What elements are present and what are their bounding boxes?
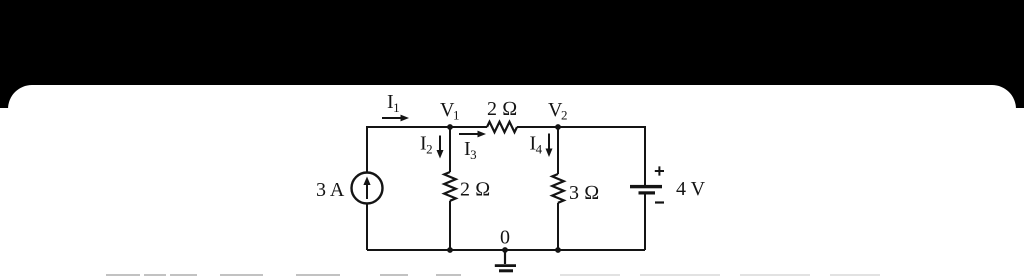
battery minus sign bbox=[655, 201, 664, 203]
label I1 bbox=[387, 91, 400, 115]
battery V1 4V short negative plate bbox=[639, 191, 656, 194]
wire: bottom wire from left corner through nodes to right corner bbox=[367, 249, 645, 251]
label 2 ohm top resistor value bbox=[487, 98, 517, 120]
wire: V1 branch upper (node V1 down to 2-ohm resistor) bbox=[449, 127, 451, 172]
resistor R3 2-ohm horizontal between V1 and V2 bbox=[487, 122, 517, 132]
node 0 junction dot at ground bbox=[502, 247, 508, 253]
svg-text:2 Ω: 2 Ω bbox=[460, 179, 490, 201]
white content card with rounded top corners bbox=[8, 85, 1016, 276]
svg-text:4 V: 4 V bbox=[676, 178, 706, 200]
svg-text:I4: I4 bbox=[530, 133, 543, 157]
wire: left branch lower (current source to bottom wire) bbox=[366, 204, 368, 251]
arrow for current I4 down branch V2 bbox=[546, 134, 553, 158]
svg-text:I1: I1 bbox=[387, 91, 400, 115]
junction dot bottom of V1 branch bbox=[447, 247, 453, 253]
wire: right branch upper (top wire down to battery + plate) bbox=[644, 127, 646, 185]
current source internal up arrow bbox=[363, 177, 370, 200]
svg-text:I2: I2 bbox=[420, 133, 433, 157]
arrow for current I1 on top wire bbox=[382, 115, 409, 122]
battery plus sign bbox=[655, 166, 664, 175]
faint clipped text line at bottom edge bbox=[106, 274, 461, 276]
label 3 ohm resistor value bbox=[569, 182, 599, 204]
ground symbol at node 0 bbox=[495, 250, 516, 271]
svg-text:V1: V1 bbox=[440, 99, 459, 123]
wire: top-left segment from source top-left corner to node V1 and on to resistor bbox=[367, 127, 487, 128]
svg-text:V2: V2 bbox=[548, 99, 567, 123]
junction dot bottom of V2 branch bbox=[555, 247, 561, 253]
label I3 bbox=[464, 138, 477, 162]
svg-text:I3: I3 bbox=[464, 138, 477, 162]
node V2 junction dot bbox=[555, 124, 561, 130]
resistor R1 2-ohm vertical at node V1 bbox=[444, 172, 456, 201]
label I2 bbox=[420, 133, 433, 157]
wire: top-right segment from 2-ohm resistor through node V2 to top-right corner bbox=[517, 127, 645, 128]
arrow for current I2 down branch V1 bbox=[437, 136, 444, 159]
battery V1 4V long positive plate bbox=[630, 185, 662, 188]
arrow for current I3 toward 2-ohm resistor bbox=[459, 131, 486, 138]
wire: right branch lower (battery - plate to bottom wire) bbox=[644, 194, 646, 250]
label V2 node voltage bbox=[548, 99, 567, 123]
label 3 A source value bbox=[316, 179, 345, 201]
node V1 junction dot bbox=[447, 124, 453, 130]
label V1 node voltage bbox=[440, 99, 459, 123]
svg-text:3 Ω: 3 Ω bbox=[569, 182, 599, 204]
wire: left branch upper (top wire down to current source) bbox=[366, 127, 368, 173]
current source 3A circle symbol bbox=[352, 173, 383, 204]
label I4 bbox=[530, 133, 543, 157]
black app header bar bbox=[0, 0, 1024, 108]
wire: V1 branch lower (2-ohm resistor to bottom wire) bbox=[449, 201, 451, 250]
resistor R2 3-ohm vertical at node V2 bbox=[552, 174, 564, 203]
label 4 V battery value bbox=[676, 178, 706, 200]
svg-text:2 Ω: 2 Ω bbox=[487, 98, 517, 120]
label 0 ground node bbox=[500, 227, 510, 249]
svg-text:0: 0 bbox=[500, 227, 510, 249]
label 2 ohm vertical resistor value bbox=[460, 179, 490, 201]
svg-text:3 A: 3 A bbox=[316, 179, 345, 201]
wire: V2 branch upper (node V2 down to 3-ohm resistor) bbox=[557, 127, 559, 174]
wire: V2 branch lower (3-ohm resistor to bottom wire) bbox=[557, 203, 559, 250]
